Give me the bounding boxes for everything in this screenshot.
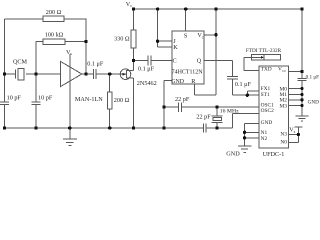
svg-text:330 Ω: 330 Ω [114, 36, 130, 43]
svg-text:GND: GND [171, 79, 185, 85]
svg-text:cc: cc [282, 68, 286, 73]
svg-text:GND: GND [226, 151, 240, 158]
svg-text:S: S [184, 32, 188, 39]
svg-text:200 Ω: 200 Ω [46, 9, 62, 16]
svg-text:2N5462: 2N5462 [137, 80, 157, 87]
svg-text:74HCT112N: 74HCT112N [172, 69, 204, 75]
svg-text:0.1 μF: 0.1 μF [87, 60, 104, 67]
svg-text:16 MHz: 16 MHz [220, 108, 239, 114]
svg-text:TXD: TXD [261, 67, 272, 73]
svg-text:GND: GND [261, 120, 273, 126]
svg-text:22 pF: 22 pF [175, 96, 190, 103]
svg-text:0.1 μF: 0.1 μF [235, 81, 252, 88]
svg-text:c: c [202, 34, 204, 39]
svg-text:10 pF: 10 pF [38, 95, 53, 102]
svg-text:Q: Q [197, 58, 202, 65]
svg-text:0.1 μF: 0.1 μF [138, 65, 155, 72]
svg-text:10 pF: 10 pF [7, 95, 22, 102]
svg-text:GND: GND [308, 100, 319, 106]
svg-text:N0: N0 [280, 139, 287, 145]
svg-text:K: K [173, 44, 178, 51]
svg-text:MAN-1LN: MAN-1LN [75, 96, 103, 103]
svg-text:QCM: QCM [13, 58, 28, 65]
svg-text:UFDC-1: UFDC-1 [263, 151, 285, 158]
svg-text:22 pF: 22 pF [196, 114, 211, 121]
svg-text:N2: N2 [261, 136, 268, 142]
svg-text:100 kΩ: 100 kΩ [45, 32, 64, 39]
svg-text:0.1 μF: 0.1 μF [306, 75, 319, 81]
svg-text:FTDI TTL-232R: FTDI TTL-232R [246, 48, 282, 54]
svg-text:N3: N3 [280, 131, 287, 137]
svg-text:FX1: FX1 [261, 86, 271, 92]
svg-text:OSC2: OSC2 [261, 108, 274, 114]
svg-text:M3: M3 [280, 103, 288, 109]
svg-text:200 Ω: 200 Ω [114, 97, 130, 104]
svg-text:C: C [173, 57, 177, 64]
svg-text:c: c [130, 3, 132, 8]
svg-text:ST1: ST1 [261, 92, 270, 98]
